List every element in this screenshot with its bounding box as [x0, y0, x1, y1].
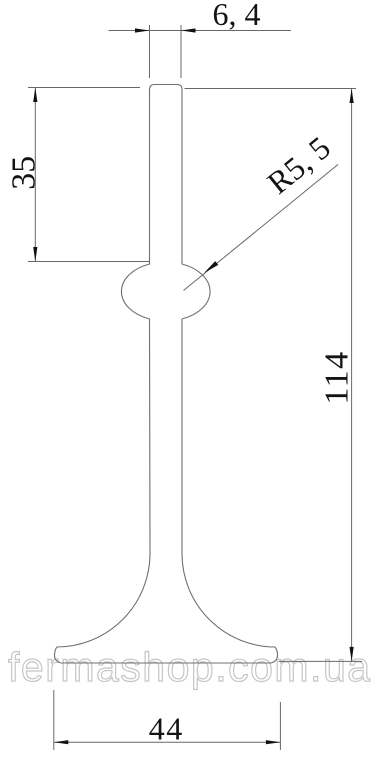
dim line: [109, 30, 292, 32]
arrow right of 44: [266, 740, 281, 744]
dimension 44 (bottom): [54, 690, 281, 750]
profile outline (PVC clip cross-section): [55, 85, 278, 664]
leader arrowhead: [204, 261, 218, 273]
svg-text:44: 44: [149, 711, 184, 747]
dim line: [54, 741, 281, 743]
dimension 6,4 (top): [109, 25, 292, 78]
ext line top: [28, 87, 140, 89]
leader R5,5: [184, 165, 339, 291]
svg-text:6, 4: 6, 4: [213, 0, 261, 32]
svg-text:fermashop.com.ua: fermashop.com.ua: [8, 644, 372, 690]
ext line bottom: [279, 660, 362, 662]
svg-text:35: 35: [6, 156, 43, 190]
dimension 35 (left): [28, 88, 149, 262]
arrow right of 6,4: [181, 28, 196, 32]
arrow bottom of 114: [350, 647, 354, 662]
arrow bottom of 35: [33, 247, 37, 262]
ext line bottom: [28, 261, 149, 263]
arrow top of 35: [33, 88, 37, 103]
arrow left of 44: [54, 740, 69, 744]
ext line top: [185, 88, 357, 90]
ext line right: [279, 702, 281, 750]
svg-text:114: 114: [319, 350, 356, 404]
ext line left: [53, 690, 55, 750]
dimension 114 (right): [185, 89, 363, 662]
arrow left of 6,4: [135, 28, 150, 32]
ext line right: [180, 25, 182, 78]
ext line left: [149, 25, 151, 78]
arrow top of 114: [350, 89, 354, 104]
dim line: [351, 89, 353, 662]
dim line: [34, 88, 36, 262]
svg-text:R5, 5: R5, 5: [260, 129, 337, 201]
